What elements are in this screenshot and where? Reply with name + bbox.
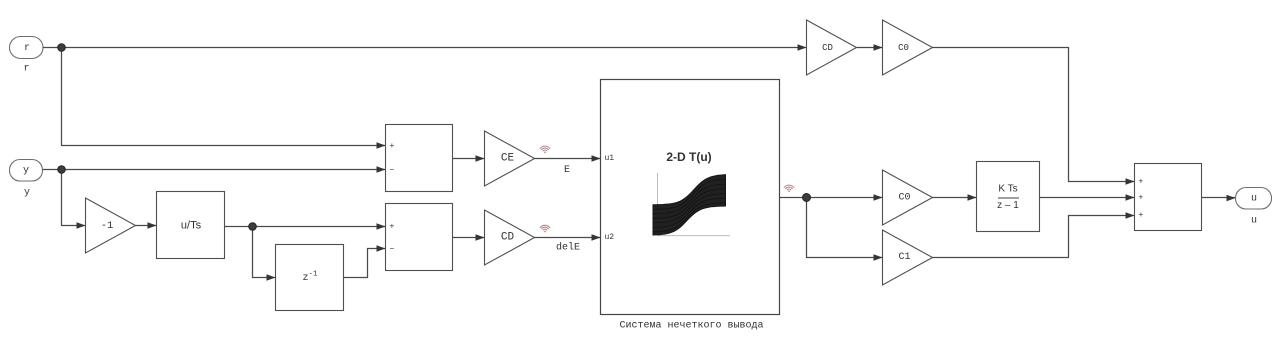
node after r xyxy=(58,44,66,52)
svg-text:CE: CE xyxy=(501,153,515,165)
wire KTs to sum3 input2 xyxy=(1040,197,1135,199)
block fuzzy inference Система нечеткого вывода xyxy=(601,80,780,315)
svg-text:C1: C1 xyxy=(898,252,910,263)
gain CD top xyxy=(807,20,857,75)
logging badge after CD xyxy=(540,225,550,230)
svg-text:Система нечеткого вывода: Система нечеткого вывода xyxy=(619,320,763,331)
gain CE xyxy=(485,131,535,186)
wire CE to fuzzy u1 xyxy=(535,158,601,160)
svg-text:u1: u1 xyxy=(605,154,615,163)
svg-text:C0: C0 xyxy=(898,43,909,53)
gain G1 value -1 xyxy=(86,198,136,253)
block unit delay z^-1 xyxy=(276,245,344,311)
wire sum2 to CD xyxy=(453,237,485,239)
svg-text:r: r xyxy=(24,43,30,54)
inport y xyxy=(10,160,43,182)
svg-text:C0: C0 xyxy=(898,193,910,204)
svg-text:+: + xyxy=(390,142,395,151)
svg-text:z – 1: z – 1 xyxy=(997,200,1019,211)
sum block S3 xyxy=(1135,164,1202,231)
wire sum1 to CE xyxy=(453,158,485,160)
svg-text:K Ts: K Ts xyxy=(998,184,1017,195)
wire u/Ts to sum2 plus xyxy=(225,226,386,228)
wire C0 top to sum3 input1 xyxy=(933,48,1135,182)
block discrete integrator K Ts / z-1 xyxy=(977,162,1040,232)
svg-text:u2: u2 xyxy=(605,233,615,242)
svg-text:CD: CD xyxy=(822,43,833,53)
wire branch to z-1 xyxy=(253,227,276,278)
svg-text:CD: CD xyxy=(501,232,515,244)
node after u/Ts xyxy=(249,223,257,231)
svg-text:+: + xyxy=(1139,211,1144,220)
wire gain -1 to u/Ts xyxy=(136,225,157,227)
wire CD top to C0 top xyxy=(857,47,883,49)
svg-text:delE: delE xyxy=(556,242,580,254)
svg-text:-1: -1 xyxy=(101,220,114,232)
outport u xyxy=(1236,188,1272,210)
inport r xyxy=(10,37,44,59)
sum block S2 xyxy=(386,204,453,271)
sum block S1 xyxy=(386,125,453,192)
svg-text:+: + xyxy=(1139,194,1144,203)
svg-text:u: u xyxy=(1251,216,1257,227)
logging badge after CE xyxy=(540,146,550,151)
svg-text:−: − xyxy=(390,166,395,175)
wire fuzzy out to gain C0 xyxy=(780,197,883,199)
gain C1 xyxy=(883,230,933,285)
gain C0 top xyxy=(883,20,933,75)
fuzzy surface band xyxy=(653,175,726,235)
wire z-1 to sum2 minus xyxy=(344,249,386,278)
svg-text:y: y xyxy=(24,188,30,199)
wire branch to gain C1 xyxy=(807,198,883,258)
svg-text:u/Ts: u/Ts xyxy=(181,220,202,232)
svg-text:−: − xyxy=(390,245,395,254)
svg-text:2-D T(u): 2-D T(u) xyxy=(666,150,711,164)
svg-text:+: + xyxy=(390,223,395,232)
svg-text:E: E xyxy=(564,165,570,176)
wire sum3 to outport u xyxy=(1202,197,1236,199)
wire y to sum1 minus xyxy=(43,169,386,171)
svg-text:+: + xyxy=(1139,178,1144,187)
svg-text:y: y xyxy=(23,165,29,176)
svg-text:r: r xyxy=(23,64,29,75)
gain C0 xyxy=(883,170,933,225)
wire C0 to KTs xyxy=(933,197,977,199)
wire y branch to gain -1 xyxy=(62,170,86,226)
wire CD to fuzzy u2 xyxy=(535,237,601,239)
node after fuzzy xyxy=(803,194,811,202)
wire r to CD top xyxy=(43,47,807,49)
fuzzy surface axes xyxy=(658,173,731,236)
block u/Ts xyxy=(157,192,225,259)
svg-text:u: u xyxy=(1251,193,1257,204)
wire C1 to sum3 input3 xyxy=(933,216,1135,258)
node after y xyxy=(58,166,66,174)
gain CD left xyxy=(485,210,535,265)
wire r branch to sum1 plus xyxy=(62,48,386,146)
logging badge after fuzzy xyxy=(784,185,794,190)
